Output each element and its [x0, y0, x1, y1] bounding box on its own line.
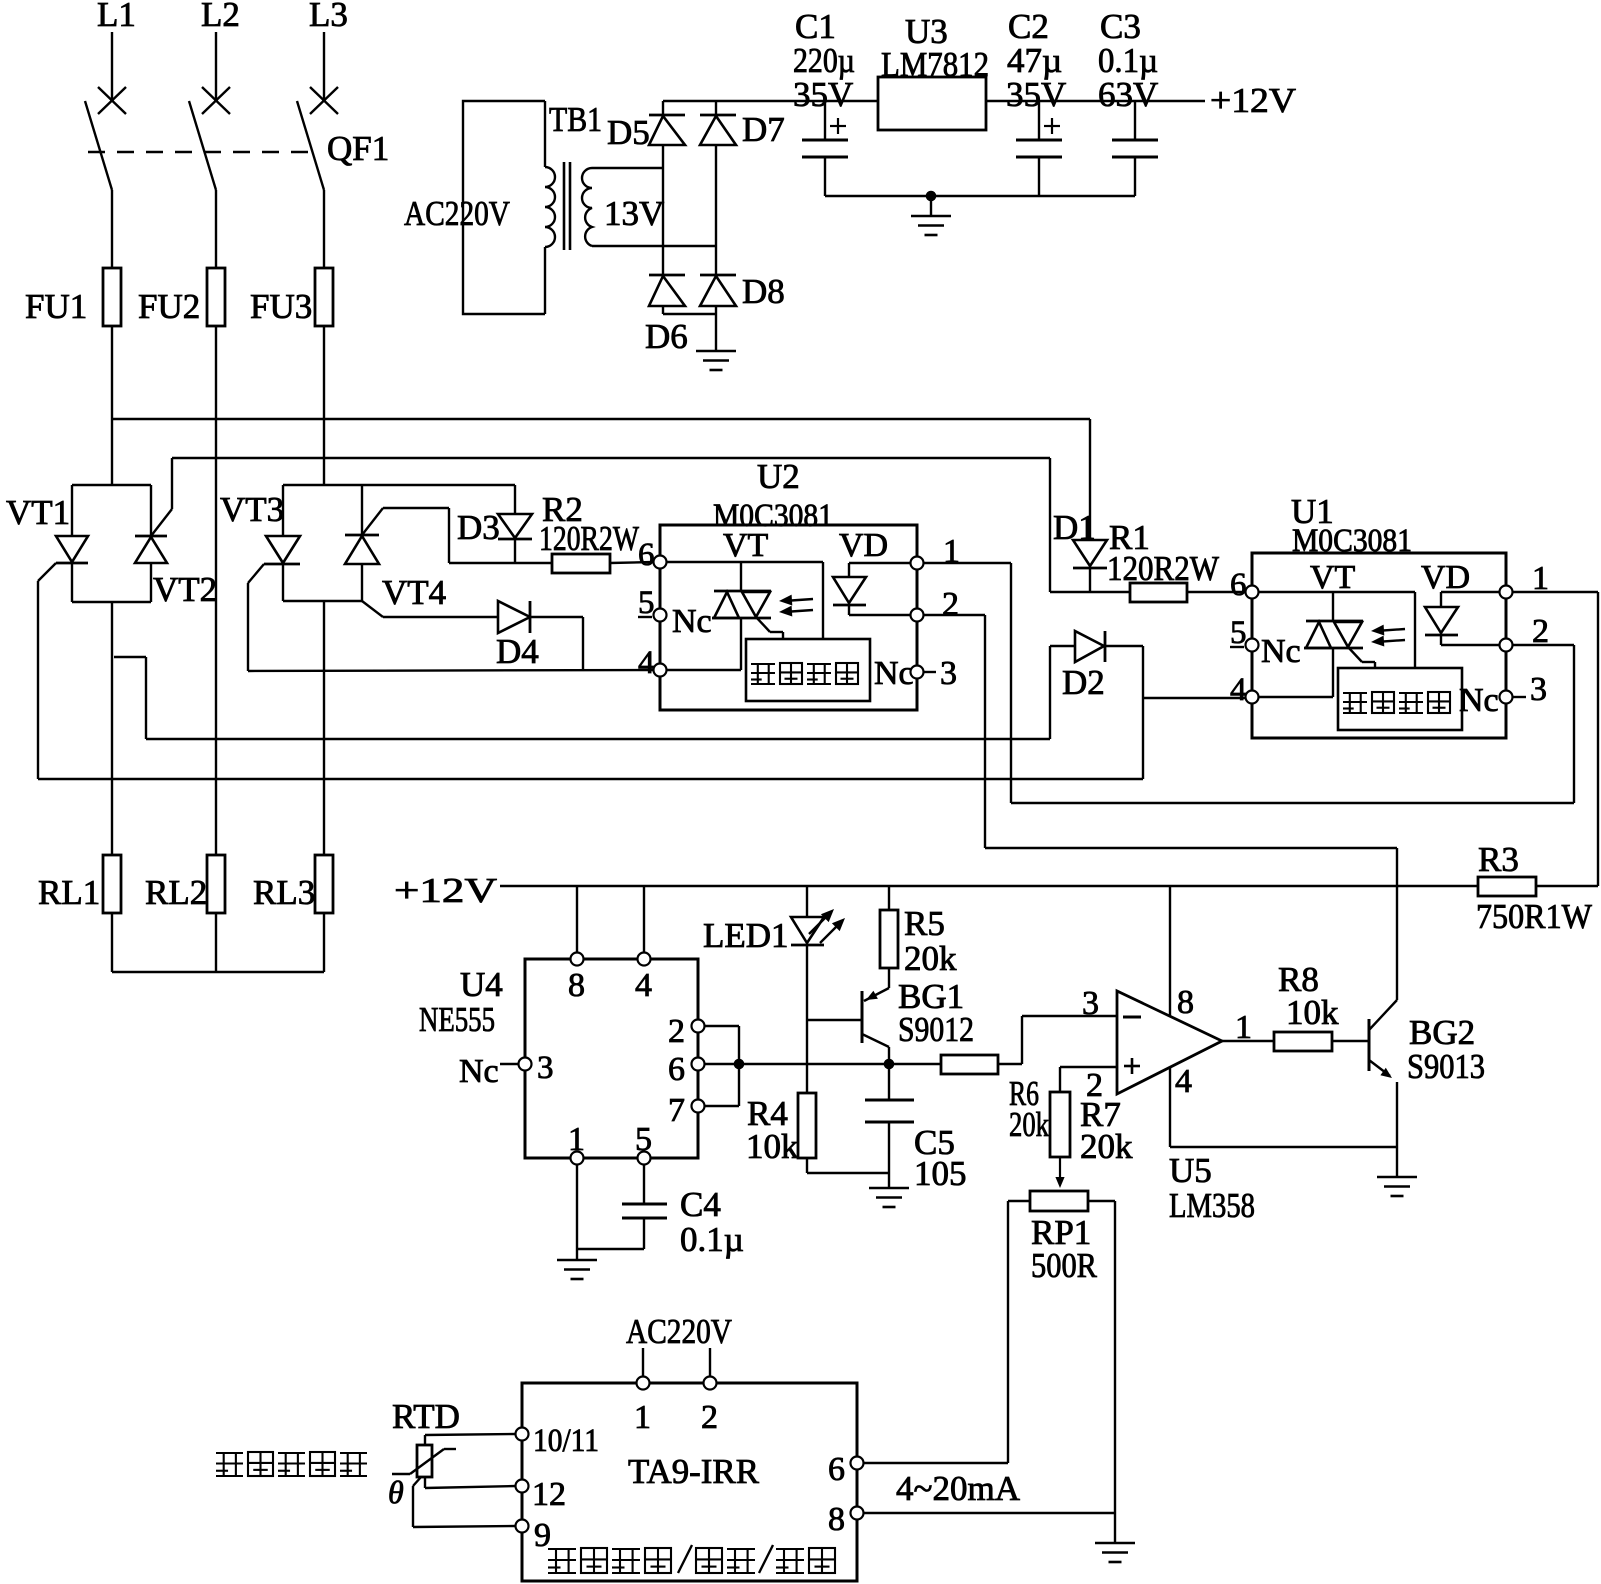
- svg-text:3: 3: [1082, 985, 1099, 1022]
- optocoupler U1 box: [1252, 553, 1506, 738]
- wire VT3 gate row to U2 pin4: [248, 670, 654, 671]
- svg-text:8: 8: [828, 1501, 845, 1538]
- transistor BG2: [1368, 1019, 1371, 1071]
- wire U5 ground: [1169, 1067, 1171, 1147]
- wire L2 drop: [215, 32, 217, 100]
- junction psu ground: [926, 191, 937, 202]
- wire U5 output: [1222, 1040, 1274, 1042]
- wire 555 out row: [739, 1063, 941, 1065]
- U2 light arrows: [784, 599, 813, 601]
- wire RL1 to bus: [111, 913, 113, 972]
- TA9 pin 8: [851, 1507, 864, 1520]
- svg-text:Nc: Nc: [874, 655, 914, 692]
- wire RL2 to bus: [215, 913, 217, 972]
- wire D2 to pin4 row: [1142, 646, 1144, 779]
- resistor R3: [1478, 877, 1536, 896]
- thyristor VT1 gate: [38, 563, 56, 581]
- wire secondary bottom: [592, 245, 716, 247]
- svg-text:6: 6: [668, 1051, 685, 1088]
- svg-text:20k: 20k: [904, 939, 957, 978]
- TA9 pin 9: [516, 1520, 529, 1533]
- svg-text:4: 4: [1175, 1063, 1192, 1100]
- U1 pin 1: [1500, 586, 1513, 599]
- junction U4 tie: [734, 1059, 745, 1070]
- wire R6 to op-amp: [998, 1063, 1022, 1065]
- U1 pin4 row: [1258, 696, 1333, 698]
- U4 pin 2: [692, 1020, 705, 1033]
- diode D1: [1089, 419, 1091, 540]
- ground C5: [869, 1187, 909, 1190]
- TA9 pin 10/11: [516, 1428, 529, 1441]
- resistor R8: [1274, 1032, 1332, 1051]
- transformer TB1 secondary winding: [582, 168, 592, 246]
- U2 zero-cross text: [751, 663, 775, 665]
- svg-text:U5: U5: [1169, 1151, 1212, 1190]
- svg-text:Nc: Nc: [1261, 633, 1301, 670]
- svg-text:D5: D5: [607, 113, 650, 152]
- svg-text:C4: C4: [680, 1185, 721, 1224]
- regulator U3: [878, 77, 986, 130]
- U2 pin6 row: [666, 561, 823, 563]
- svg-text:20k: 20k: [1009, 1105, 1049, 1144]
- U4 pin8 wire: [576, 886, 578, 953]
- svg-text:+12V: +12V: [1210, 81, 1296, 120]
- thyristor VT3 gate: [248, 564, 264, 583]
- wire L2 to fuse: [215, 190, 217, 268]
- TA9 bottom text: [548, 1548, 576, 1550]
- transformer TB1 core: [563, 162, 566, 250]
- svg-text:10k: 10k: [746, 1127, 799, 1166]
- U2 pin 1: [911, 557, 924, 570]
- U1 pin 5: [1246, 639, 1259, 652]
- transformer TB1 primary loop: [463, 101, 545, 314]
- svg-text:R5: R5: [904, 904, 945, 943]
- svg-text:TA9-IRR: TA9-IRR: [628, 1452, 760, 1491]
- junction 555 out: [884, 1059, 895, 1070]
- svg-text:RL3: RL3: [253, 873, 315, 912]
- diode D3: [498, 514, 532, 538]
- svg-text:RL1: RL1: [38, 873, 100, 912]
- U2 pin 5: [654, 609, 667, 622]
- U4 pin4 wire: [643, 886, 645, 953]
- wire +12V top rail: [877, 100, 879, 102]
- wire secondary top: [592, 167, 663, 169]
- U2 pin 2: [911, 609, 924, 622]
- wire load bus: [112, 971, 324, 973]
- wire L1 into box: [111, 484, 113, 486]
- TA9 pin2 stub: [709, 1348, 711, 1377]
- U1 pin 4: [1246, 691, 1259, 704]
- LED1 arrows: [809, 912, 831, 934]
- U4 pins 2/6/7 tie: [704, 1025, 739, 1027]
- svg-text:U2: U2: [757, 457, 800, 496]
- resistor R5: [888, 886, 890, 910]
- thyristor pair box VT3/VT4: [283, 484, 362, 486]
- U4 pin 8: [571, 953, 584, 966]
- svg-text:6: 6: [828, 1451, 845, 1488]
- capacitor C5: [888, 1064, 890, 1100]
- svg-text:20k: 20k: [1080, 1127, 1133, 1166]
- svg-text:4: 4: [635, 967, 652, 1004]
- op-amp U5: [1117, 991, 1222, 1094]
- U2 triac gate tail: [756, 617, 770, 632]
- load RL2: [207, 855, 225, 913]
- wire U1 pin1 to R3: [1512, 591, 1598, 593]
- ground bridge: [715, 314, 717, 351]
- U2 pin 6: [654, 556, 667, 569]
- svg-text:2: 2: [942, 586, 959, 623]
- U2 zero-cross box: [746, 639, 870, 701]
- svg-text:AC220V: AC220V: [404, 194, 510, 233]
- resistor R7: [1059, 1067, 1061, 1092]
- wire VT1 gate bus: [38, 778, 1143, 780]
- resistor R6: [941, 1055, 998, 1074]
- thyristor pair box VT1/VT2: [72, 484, 151, 486]
- thyristor VT4 gate: [362, 508, 383, 535]
- breaker QF1 blade L3: [297, 101, 324, 190]
- wire bridge top rail: [663, 100, 878, 102]
- op-amp U5 minus: [1123, 1016, 1141, 1019]
- wire R3 to corner: [1536, 885, 1598, 887]
- svg-text:VT3: VT3: [220, 490, 284, 529]
- wire U2 pin2 to BG2 collector: [923, 614, 985, 616]
- U4 pin 3: [519, 1058, 532, 1071]
- R7 wiper arrow: [1059, 1157, 1061, 1180]
- svg-text:D2: D2: [1062, 663, 1105, 702]
- thyristor VT3: [266, 536, 300, 563]
- svg-text:FU2: FU2: [138, 287, 200, 326]
- wire +12V mid rail: [500, 885, 1478, 887]
- svg-text:105: 105: [914, 1154, 967, 1193]
- svg-text:2: 2: [1532, 613, 1549, 650]
- TA9 pin1 stub: [642, 1348, 644, 1377]
- svg-text:U4: U4: [460, 965, 503, 1004]
- wire box2 to D3: [362, 484, 515, 486]
- svg-text:8: 8: [568, 967, 585, 1004]
- thyristor VT1: [56, 536, 88, 562]
- U1 pin 2: [1500, 639, 1513, 652]
- svg-text:D6: D6: [645, 317, 688, 356]
- svg-text:120R2W: 120R2W: [1107, 549, 1219, 588]
- svg-text:1: 1: [634, 1399, 651, 1436]
- U4 pin 5: [638, 1152, 651, 1165]
- TA9 pin 1: [637, 1377, 650, 1390]
- breaker contact X L3: [310, 87, 338, 114]
- svg-text:D3: D3: [457, 508, 500, 547]
- wire BG1 base: [807, 1019, 862, 1021]
- wire D2 leg to U1 pin4: [1143, 697, 1246, 699]
- optocoupler U2 box: [660, 525, 917, 710]
- svg-text:750R1W: 750R1W: [1476, 897, 1592, 936]
- thyristor VT2: [135, 535, 167, 538]
- U1 pin6 row: [1258, 591, 1415, 593]
- wire RL3 to bus: [323, 913, 325, 972]
- svg-text:FU3: FU3: [250, 287, 312, 326]
- svg-text:63V: 63V: [1098, 75, 1158, 114]
- svg-text:LM7812: LM7812: [881, 45, 989, 84]
- svg-text:13V: 13V: [604, 194, 664, 233]
- wire U2 pin1 to U1 pin2: [923, 562, 1011, 564]
- svg-text:12: 12: [532, 1476, 566, 1513]
- breaker contact X L1: [98, 87, 126, 114]
- svg-text:2: 2: [668, 1013, 685, 1050]
- resistor R2: [552, 554, 610, 573]
- svg-text:R3: R3: [1478, 840, 1519, 879]
- wire gate row to R2: [449, 562, 552, 564]
- wire L1 to VT1 box: [111, 326, 113, 485]
- U1 pin 3: [1500, 691, 1513, 704]
- svg-text:D8: D8: [742, 272, 785, 311]
- svg-text:120R2W: 120R2W: [539, 519, 639, 558]
- wire L1 below box: [111, 602, 113, 855]
- resistor R1: [1130, 583, 1187, 602]
- svg-text:Nc: Nc: [1459, 682, 1499, 719]
- svg-text:4: 4: [1230, 672, 1247, 708]
- TA9 pin 6: [851, 1457, 864, 1470]
- wire L3 to VT3 box: [323, 326, 325, 485]
- svg-text:L1: L1: [97, 0, 136, 34]
- wire TA9 pin8 to ground: [863, 1512, 1115, 1514]
- ground U3: [930, 196, 932, 216]
- svg-text:Nc: Nc: [459, 1053, 499, 1090]
- svg-text:D4: D4: [496, 632, 539, 671]
- wire RTD to pin10/11: [424, 1435, 426, 1445]
- U4 pin 6: [692, 1058, 705, 1071]
- svg-text:L2: L2: [201, 0, 240, 34]
- capacitor C1: [824, 101, 826, 140]
- U2 pin4 row: [666, 669, 741, 671]
- svg-text:VT2: VT2: [153, 570, 217, 609]
- fuse FU2: [207, 268, 225, 326]
- wire VT1-L1 jog to D2: [114, 656, 146, 658]
- diode D6: [649, 274, 685, 277]
- svg-text:35V: 35V: [1006, 75, 1066, 114]
- svg-text:7: 7: [668, 1092, 685, 1129]
- wire RP1 left to TA9 pin6: [1008, 1200, 1030, 1202]
- svg-text:LED1: LED1: [703, 916, 789, 955]
- potentiometer RP1: [1030, 1191, 1088, 1211]
- wire L2 down: [215, 326, 217, 855]
- svg-text:2: 2: [701, 1399, 718, 1436]
- svg-text:10k: 10k: [1286, 993, 1339, 1032]
- timer U4 box: [525, 959, 698, 1158]
- svg-text:VT4: VT4: [382, 573, 446, 612]
- load RL3: [315, 855, 333, 913]
- svg-text:8: 8: [1177, 984, 1194, 1021]
- svg-text:4: 4: [638, 645, 655, 681]
- diode D8: [700, 274, 736, 277]
- U2 pin 4: [654, 664, 667, 677]
- wire L3 to fuse: [323, 190, 325, 268]
- wire bridge bottom: [663, 313, 716, 315]
- svg-text:+12V: +12V: [394, 871, 497, 910]
- fuse FU1: [103, 268, 121, 326]
- diode D4: [498, 601, 530, 633]
- wire psu ground bus: [825, 195, 1135, 197]
- svg-text:S9012: S9012: [898, 1010, 974, 1049]
- svg-text:L3: L3: [309, 0, 348, 34]
- svg-text:NE555: NE555: [419, 1000, 495, 1039]
- U4 pin1 ground wire: [576, 1164, 578, 1260]
- svg-text:1: 1: [943, 533, 960, 570]
- svg-text:3: 3: [1530, 671, 1547, 708]
- svg-text:RTD: RTD: [392, 1397, 460, 1436]
- svg-text:S9013: S9013: [1407, 1047, 1485, 1086]
- svg-text:θ: θ: [388, 1474, 404, 1510]
- U1 triac gate tail: [1348, 647, 1362, 662]
- svg-text:VT1: VT1: [6, 493, 70, 532]
- svg-text:AC220V: AC220V: [626, 1312, 732, 1351]
- svg-text:6: 6: [638, 537, 655, 573]
- svg-text:D7: D7: [742, 110, 785, 149]
- svg-text:FU1: FU1: [25, 287, 87, 326]
- svg-text:10/11: 10/11: [533, 1423, 599, 1459]
- wire D4 down to pin4 row: [582, 617, 584, 671]
- breaker QF1 linkage (dashed): [88, 151, 308, 154]
- breaker QF1 blade L1: [85, 101, 112, 190]
- capacitor C4: [643, 1164, 645, 1204]
- U1 zero-cross box: [1338, 668, 1462, 730]
- fuse FU3: [315, 268, 333, 326]
- wire L1 drop: [111, 32, 113, 100]
- svg-text:VT: VT: [1310, 559, 1356, 596]
- TA9 pin 12: [516, 1480, 529, 1493]
- thermistor RTD: [417, 1445, 432, 1477]
- svg-text:500R: 500R: [1031, 1246, 1098, 1285]
- svg-text:1: 1: [1235, 1009, 1252, 1046]
- LED1: [806, 886, 808, 917]
- svg-text:0.1µ: 0.1µ: [680, 1220, 744, 1259]
- svg-text:6: 6: [1230, 567, 1247, 603]
- svg-text:QF1: QF1: [327, 129, 389, 168]
- U4 pin 4: [638, 953, 651, 966]
- svg-text:5: 5: [1230, 615, 1247, 651]
- op-amp U5 plus: [1124, 1065, 1140, 1068]
- U1 pin 6: [1246, 586, 1259, 599]
- svg-text:Nc: Nc: [672, 603, 712, 640]
- svg-text:4~20mA: 4~20mA: [896, 1469, 1021, 1508]
- wire R2 to U2 pin6: [610, 562, 654, 563]
- svg-text:VD: VD: [1421, 559, 1470, 596]
- wire L1 branch to D1 (top): [112, 418, 1090, 420]
- ground TA9 output: [1114, 1513, 1116, 1543]
- wire RTD to pin12: [424, 1477, 426, 1488]
- svg-text:VT: VT: [723, 527, 769, 564]
- resistor R4: [798, 1093, 816, 1158]
- ground BG2: [1396, 1147, 1398, 1177]
- U1 zero-cross text: [1343, 692, 1367, 694]
- svg-text:RL2: RL2: [145, 873, 207, 912]
- load RL1: [103, 855, 121, 913]
- wire L1 to fuse: [111, 190, 113, 268]
- U4 pin 7: [692, 1100, 705, 1113]
- capacitor C2: [1038, 101, 1040, 140]
- controller TA9 box: [522, 1383, 857, 1581]
- svg-text:5: 5: [638, 585, 655, 621]
- wire U5 plus input: [1060, 1066, 1117, 1068]
- svg-text:TB1: TB1: [549, 100, 602, 139]
- wire L3 below box: [323, 601, 325, 855]
- thyristor VT4: [345, 534, 379, 537]
- wire VT2 gate row to R1: [172, 457, 1050, 459]
- svg-text:LM358: LM358: [1169, 1186, 1255, 1225]
- diode D2: [1075, 631, 1104, 662]
- transformer TB1 primary winding: [545, 167, 555, 247]
- wire RTD to pin9: [413, 1477, 421, 1486]
- transistor BG1: [861, 991, 864, 1043]
- breaker QF1 blade L2: [189, 101, 216, 190]
- U1 light arrows: [1376, 629, 1405, 631]
- thyristor VT2 gate: [151, 509, 172, 536]
- diode D7: [715, 101, 717, 117]
- capacitor C3: [1134, 101, 1136, 140]
- wire box2 corner to D4: [362, 601, 383, 617]
- svg-text:M0C3081: M0C3081: [1292, 523, 1412, 559]
- svg-text:3: 3: [940, 655, 957, 692]
- wire U5 power: [1169, 886, 1171, 1016]
- breaker contact X L2: [202, 87, 230, 114]
- wire R1 to U1 pin6: [1187, 591, 1246, 593]
- ground U4: [557, 1259, 597, 1262]
- wire RP1 right to pin8 bus: [1088, 1200, 1115, 1202]
- svg-text:D1: D1: [1053, 508, 1096, 547]
- svg-text:35V: 35V: [793, 75, 853, 114]
- svg-text:VD: VD: [839, 527, 888, 564]
- svg-text:3: 3: [537, 1050, 554, 1086]
- sensor label cn: [216, 1452, 243, 1454]
- diode D5: [662, 101, 664, 117]
- U2 pin 3: [911, 666, 924, 679]
- wire L3 drop: [323, 32, 325, 100]
- TA9 pin 2: [704, 1377, 717, 1390]
- U4 pin 1: [571, 1152, 584, 1165]
